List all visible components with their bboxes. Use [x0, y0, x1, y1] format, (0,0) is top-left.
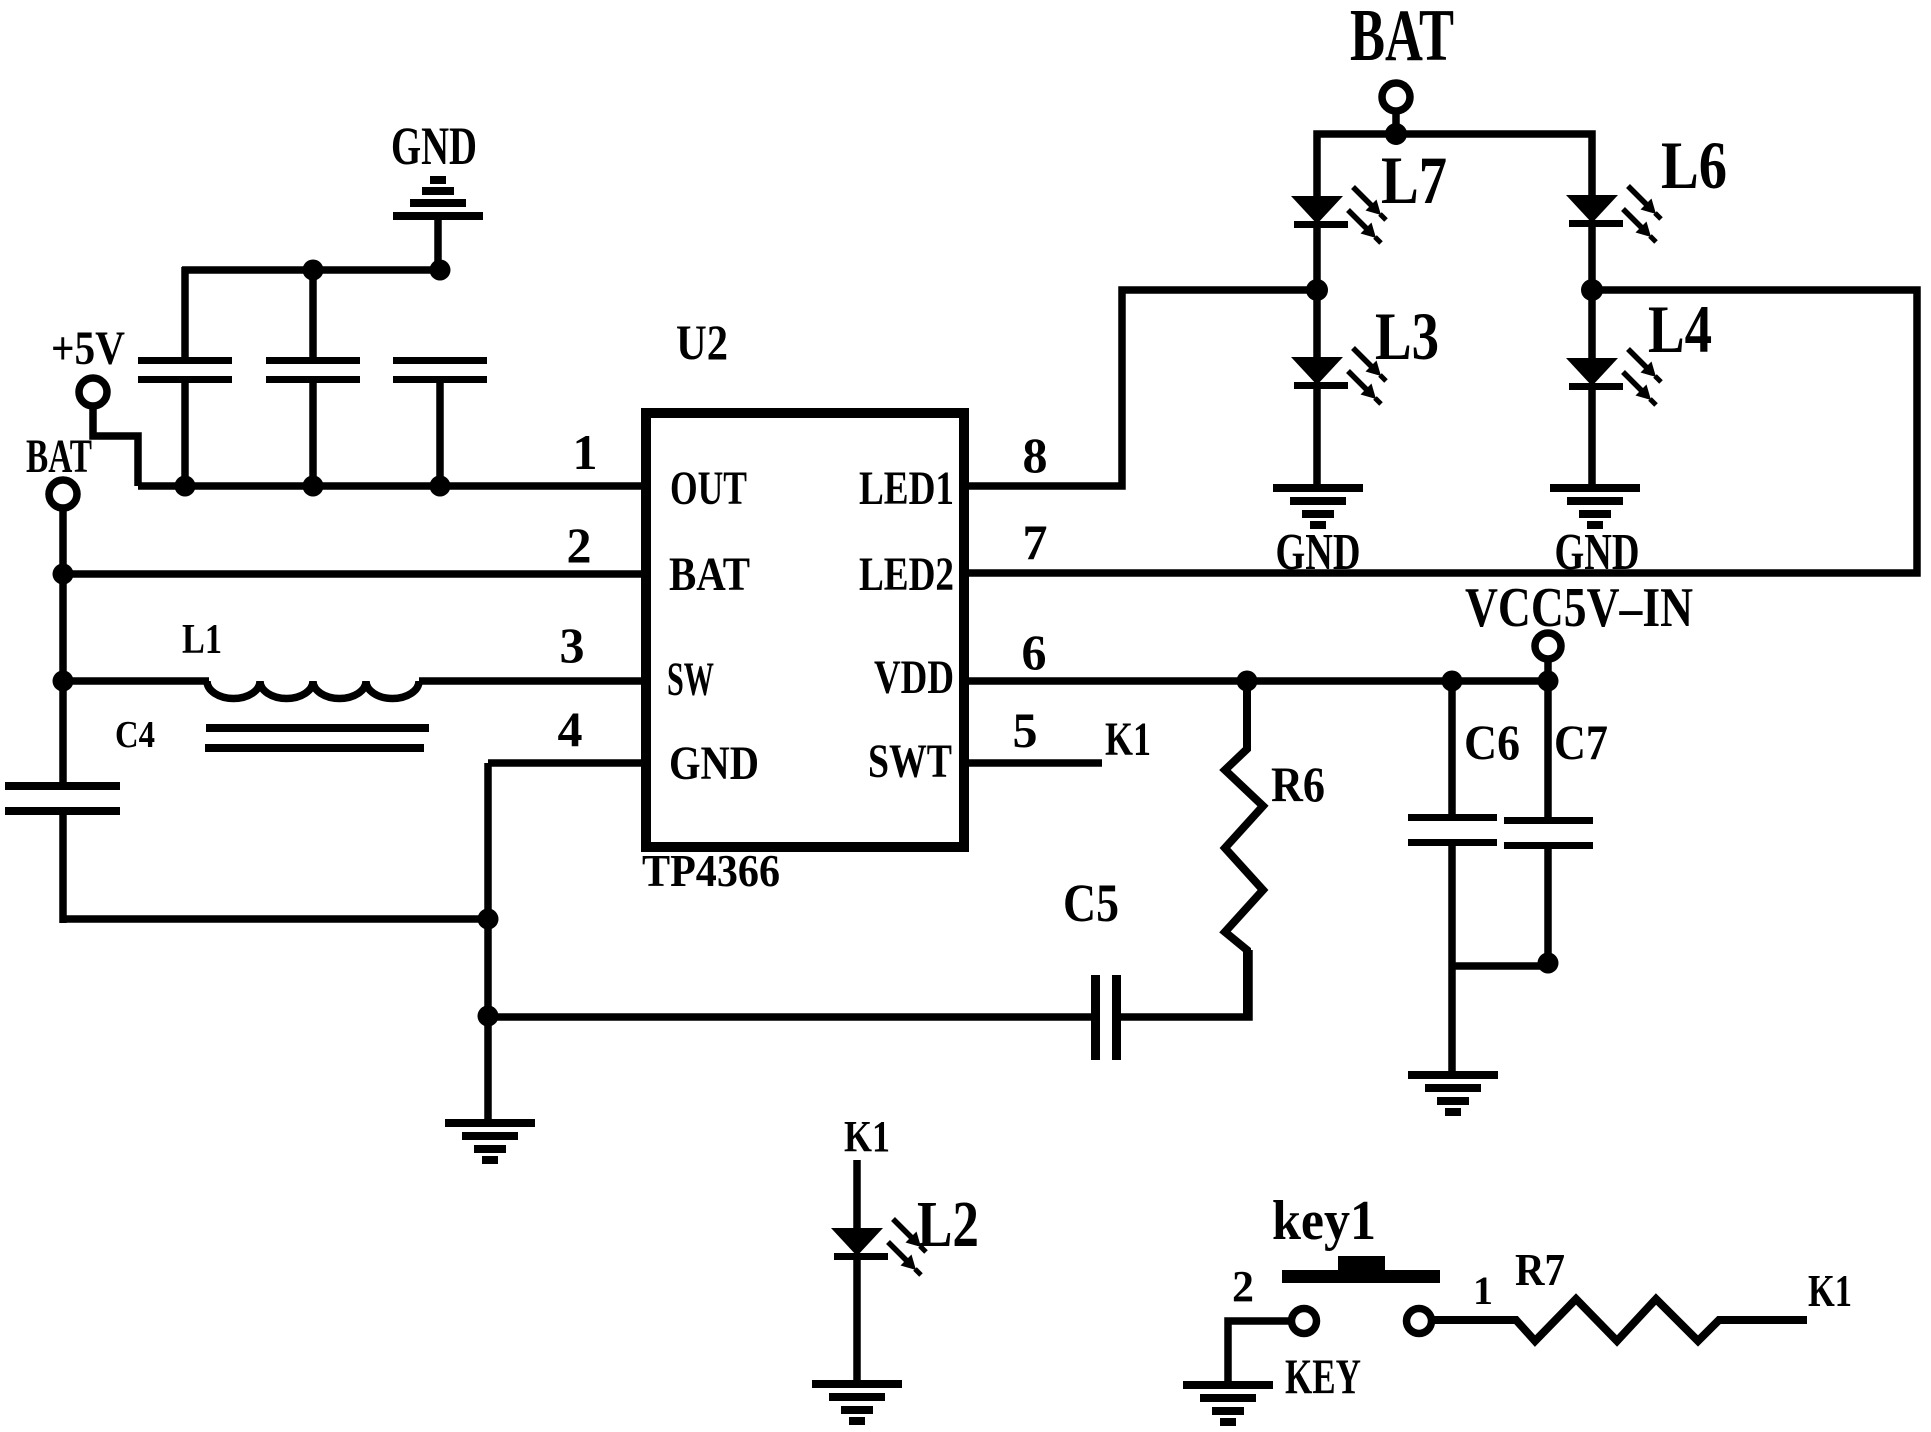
junction (cap1 / bus) [175, 476, 196, 497]
svg-text:+5V: +5V [51, 322, 125, 375]
svg-text:C7: C7 [1554, 714, 1608, 770]
resistor R7 [1431, 1299, 1807, 1341]
wire: C5 left lead [488, 1013, 1093, 1021]
LED L3 [1291, 290, 1386, 492]
wire: LED1 pin 8 [964, 290, 1317, 486]
junction (C6 / pin6) [1442, 671, 1463, 692]
wire: C4 to GND node (horizontal) [63, 915, 488, 923]
svg-text:LED2: LED2 [859, 548, 954, 601]
svg-text:2: 2 [1232, 1262, 1254, 1311]
wire: GND pin 4 vertical [484, 763, 492, 1121]
IC U2 TP4366 box [646, 413, 964, 847]
terminal BAT (top) [1382, 83, 1410, 111]
ground (below L2) [812, 1380, 902, 1425]
svg-text:L3: L3 [1375, 298, 1439, 374]
wire: cap1 top lead [181, 267, 189, 357]
capacitor (middle of bank) [266, 357, 360, 383]
wire: VDD pin 6 [964, 677, 1548, 685]
junction (BAT / pin3) [53, 671, 74, 692]
wire: OUT bus (pin 1) [138, 482, 646, 490]
junction (cap2 / top bus) [303, 260, 324, 281]
wire: SW pin 3 left segment [63, 677, 209, 685]
svg-text:GND: GND [1555, 524, 1640, 581]
svg-text:K1: K1 [844, 1112, 890, 1161]
svg-text:C4: C4 [115, 714, 155, 756]
junction (cap2 / bus) [303, 476, 324, 497]
svg-text:3: 3 [560, 617, 585, 673]
wire: VCC5V-IN stem [1544, 659, 1552, 685]
inductor L1 core bars [206, 724, 429, 732]
LED L6 [1566, 186, 1661, 290]
svg-text:1: 1 [1473, 1268, 1493, 1313]
wire: LED top bus [1317, 134, 1592, 196]
capacitor (right of bank) [393, 357, 487, 383]
svg-text:TP4366: TP4366 [642, 845, 780, 896]
junction (pin4 / C4) [478, 909, 499, 930]
junction (L7 cathode / LED1 wire) [1306, 279, 1328, 301]
capacitor (left of bank) [138, 357, 232, 383]
svg-text:L2: L2 [917, 1188, 979, 1261]
svg-text:4: 4 [558, 701, 583, 757]
wire: cap2 top lead [309, 267, 317, 357]
svg-text:K1: K1 [1808, 1265, 1852, 1316]
capacitor C6 [1408, 681, 1497, 1075]
wire: top bus of capacitor bank [182, 266, 440, 274]
svg-text:GND: GND [1276, 524, 1361, 581]
svg-text:GND: GND [669, 737, 759, 790]
svg-text:K1: K1 [1105, 713, 1151, 766]
svg-text:7: 7 [1023, 514, 1048, 570]
svg-text:6: 6 [1022, 624, 1047, 680]
inductor L1 [207, 681, 419, 699]
switch key1 [1282, 1256, 1440, 1334]
junction (cap3 / bus) [430, 476, 451, 497]
svg-text:key1: key1 [1272, 1190, 1376, 1252]
wire: C7 bottom to C6 lead [1452, 962, 1548, 970]
junction (C7 / pin6) [1538, 671, 1559, 692]
svg-text:VDD: VDD [874, 651, 954, 704]
svg-text:KEY: KEY [1285, 1348, 1361, 1404]
svg-text:BAT: BAT [26, 430, 92, 483]
wire: C4 bottom lead [59, 815, 67, 923]
LED L7 [1291, 187, 1386, 290]
wire: BAT vertical down to C4 [59, 508, 67, 782]
junction (R6 / pin6) [1237, 671, 1258, 692]
svg-text:LED1: LED1 [859, 462, 954, 515]
junction (L6 cathode / LED2 wire) [1581, 279, 1603, 301]
svg-text:VCC5V–IN: VCC5V–IN [1465, 577, 1693, 639]
resistor R6 [1225, 681, 1263, 1017]
svg-text:L4: L4 [1648, 291, 1712, 367]
svg-text:8: 8 [1023, 427, 1048, 483]
wire: BAT pin 2 [63, 570, 646, 578]
ground (below L4) [1550, 484, 1640, 529]
svg-text:U2: U2 [676, 314, 728, 370]
svg-text:SWT: SWT [868, 735, 952, 788]
svg-text:5: 5 [1013, 702, 1038, 758]
ground (below L3) [1273, 484, 1363, 529]
wire: SWT pin 5 [964, 759, 1102, 767]
capacitor C7 [1504, 681, 1593, 966]
svg-text:R6: R6 [1271, 756, 1325, 812]
wire: LED2 pin 7 [964, 290, 1917, 573]
svg-text:1: 1 [573, 424, 598, 480]
svg-text:L1: L1 [182, 617, 222, 663]
wire: BAT terminal stem [1392, 111, 1400, 138]
LED L2 [831, 1160, 926, 1384]
terminal BAT (left) [49, 480, 77, 508]
svg-text:GND: GND [391, 116, 477, 176]
wire: C5 right lead to R6 bottom [1119, 950, 1249, 1017]
junction (BAT / pin2) [53, 564, 74, 585]
ground (below C6) [1408, 1071, 1498, 1116]
svg-text:BAT: BAT [1350, 0, 1454, 77]
svg-text:C5: C5 [1063, 873, 1119, 933]
wire: cap2 bottom lead [309, 383, 317, 486]
svg-text:SW: SW [667, 653, 714, 706]
LED L4 [1566, 290, 1661, 492]
svg-text:BAT: BAT [669, 548, 750, 601]
wire: cap3 bottom lead [436, 383, 444, 486]
ground (top-left, above capacitor bank) [393, 176, 483, 274]
svg-text:L6: L6 [1661, 127, 1727, 203]
svg-text:C6: C6 [1464, 714, 1520, 770]
svg-text:R7: R7 [1515, 1244, 1565, 1295]
ground (below pin 4 node) [445, 1119, 535, 1164]
svg-text:OUT: OUT [670, 462, 747, 515]
capacitor C4 [5, 782, 120, 815]
ground (below key1) [1183, 1381, 1273, 1426]
svg-text:2: 2 [567, 517, 592, 573]
wire: SW pin 3 right segment [419, 677, 646, 685]
wire: GND pin 4 [488, 759, 646, 767]
wire: cap1 bottom lead [181, 383, 189, 486]
junction (gnd lead / top bus) [430, 260, 451, 281]
svg-text:L7: L7 [1381, 142, 1447, 218]
terminal +5V [79, 378, 107, 406]
wire: +5V to OUT bus [93, 406, 138, 486]
junction (pin4 / C5) [478, 1006, 499, 1027]
junction (C7 bottom) [1538, 953, 1559, 974]
terminal VCC5V-IN [1535, 633, 1561, 659]
junction (BAT / LED bus) [1385, 123, 1407, 145]
capacitor C5 [1091, 975, 1121, 1060]
wire: key1 pin2 to ground [1228, 1321, 1292, 1383]
